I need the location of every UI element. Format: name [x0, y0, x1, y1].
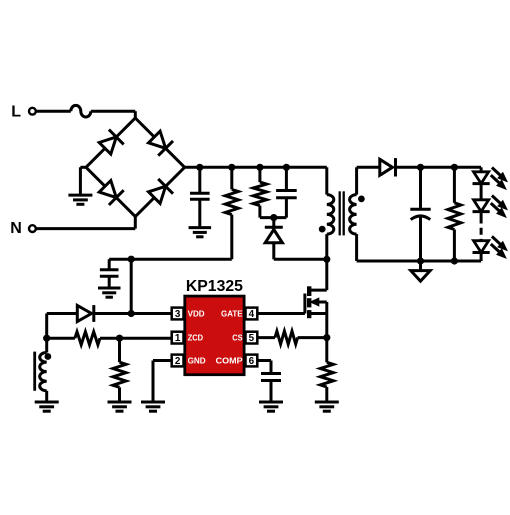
svg-text:KP1325: KP1325: [186, 278, 243, 295]
svg-text:1: 1: [175, 333, 181, 344]
svg-text:6: 6: [249, 356, 255, 367]
svg-text:4: 4: [249, 309, 255, 320]
svg-text:2: 2: [175, 356, 181, 367]
svg-text:ZCD: ZCD: [188, 333, 204, 343]
svg-text:GND: GND: [188, 356, 206, 366]
svg-text:COMP: COMP: [216, 356, 243, 366]
svg-text:5: 5: [249, 333, 255, 344]
svg-text:VDD: VDD: [188, 309, 205, 319]
svg-text:CS: CS: [232, 333, 242, 343]
svg-text:N: N: [10, 220, 22, 237]
svg-text:3: 3: [175, 309, 181, 320]
svg-text:L: L: [11, 104, 21, 121]
svg-text:GATE: GATE: [221, 309, 243, 319]
